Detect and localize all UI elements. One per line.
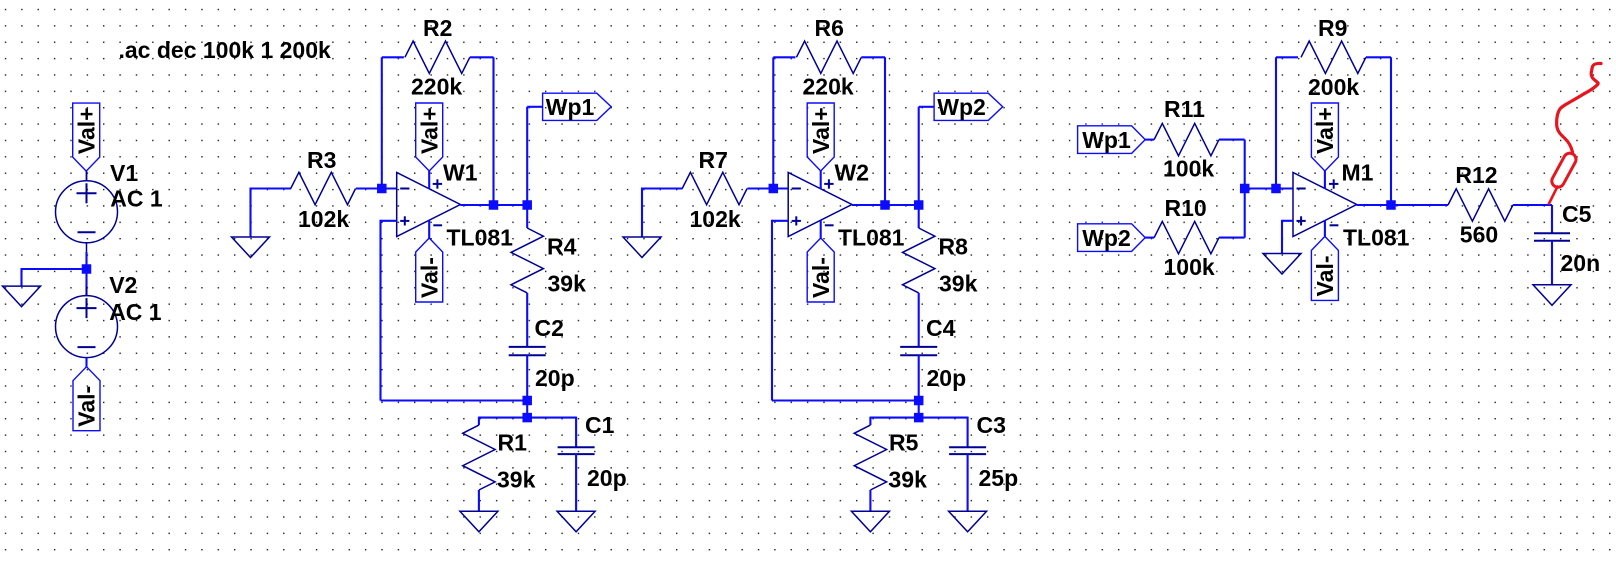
svg-text:R7: R7 (699, 147, 728, 173)
value 39k of R4 (548, 271, 587, 297)
label M1 (1342, 160, 1374, 186)
resistor R9 feedback (1301, 41, 1366, 73)
wire C3 top lead (967, 417, 969, 448)
svg-text:M1: M1 (1342, 160, 1374, 186)
svg-text:Wp2: Wp2 (1082, 225, 1131, 251)
svg-text:C2: C2 (535, 315, 564, 341)
resistor R3 (291, 172, 356, 204)
svg-text:W2: W2 (835, 159, 870, 185)
resistor R6 feedback (796, 41, 861, 73)
label TL081 of W1 (447, 225, 514, 251)
svg-text:39k: 39k (889, 467, 928, 493)
wire node vertical (918, 401, 920, 418)
svg-text:TL081: TL081 (447, 225, 514, 251)
wire output to R4 (526, 205, 528, 228)
op-amp M1 TL081 (1293, 173, 1357, 237)
wire output W2 (852, 204, 919, 206)
wire feedback right vertical R6 (884, 57, 886, 205)
wire M1 output to R12 (1357, 204, 1448, 206)
svg-text:C3: C3 (977, 412, 1006, 438)
label R9 (1318, 15, 1347, 41)
flag Val+ (V1) (73, 103, 100, 171)
wire V1 top pin (86, 171, 88, 181)
wire node vertical (526, 401, 528, 418)
wire Wp1 flag to R11 (1145, 139, 1154, 141)
flag port Wp2 (input) (1078, 224, 1146, 252)
flag port Wp1 (input) (1078, 126, 1146, 154)
value AC 1 (V1) (110, 186, 163, 212)
svg-text:W1: W1 (443, 159, 478, 185)
wire C4 to node (918, 355, 920, 400)
junction feedback-output W2 (880, 200, 890, 210)
svg-text:200k: 200k (1308, 74, 1359, 100)
value 20p of C4 (927, 365, 967, 391)
value 100k of R11 (1163, 155, 1214, 181)
wire R9 right vertical (1390, 57, 1392, 205)
label TL081 of W2 (838, 225, 905, 251)
wire R1 top lead (478, 417, 480, 426)
op-amp W1 TL081 (397, 173, 461, 237)
wire R8 to C4 (918, 293, 920, 347)
flag Val+ (W1) (416, 103, 443, 171)
svg-text:220k: 220k (411, 74, 462, 100)
flag Val+ (W2) (807, 103, 834, 171)
svg-text:R6: R6 (815, 15, 844, 41)
wire C5 to ground (1551, 241, 1553, 286)
svg-text:AC 1: AC 1 (109, 299, 162, 325)
wire noninverting input W2 (772, 220, 788, 222)
resistor R5 (854, 425, 886, 490)
junction feedback-output W1 (489, 200, 499, 210)
op-amp W2 TL081 (788, 173, 852, 237)
value 39k of R5 (889, 467, 928, 493)
svg-text:220k: 220k (803, 74, 854, 100)
flag Val- (V2) (73, 367, 100, 431)
svg-text:R12: R12 (1455, 162, 1497, 188)
label C5 (1562, 201, 1592, 227)
junction output node W1 (522, 200, 532, 210)
svg-text:Val+: Val+ (73, 107, 99, 154)
svg-text:560: 560 (1460, 222, 1498, 248)
ground under C5 (1533, 285, 1571, 306)
svg-text:R10: R10 (1165, 195, 1207, 221)
label R11 (1164, 96, 1205, 122)
wire V1-V2 (85, 252, 87, 296)
svg-text:V2: V2 (109, 272, 137, 298)
svg-text:20n: 20n (1561, 250, 1601, 276)
svg-text:Val-: Val- (1312, 255, 1338, 296)
svg-text:.ac dec 100k 1 200k: .ac dec 100k 1 200k (119, 37, 331, 63)
svg-text:Val+: Val+ (1312, 107, 1338, 154)
wire noninverting input W1 (381, 220, 397, 222)
svg-text:20p: 20p (535, 365, 575, 391)
wire C1 to ground (575, 454, 577, 512)
label R2 (423, 15, 452, 41)
svg-text:39k: 39k (497, 467, 536, 493)
svg-text:Val+: Val+ (416, 107, 442, 154)
svg-text:100k: 100k (1163, 155, 1214, 181)
resistor R12 (1448, 189, 1513, 221)
svg-text:V1: V1 (110, 160, 138, 186)
voltage source V2 circle (56, 286, 118, 367)
svg-text:TL081: TL081 (1343, 225, 1410, 251)
wire C1 top lead (575, 417, 577, 448)
wire R3 to inverting input (356, 187, 397, 189)
svg-text:R11: R11 (1164, 96, 1205, 122)
value 20p of C1 (587, 465, 627, 491)
value 102k of R7 (690, 206, 741, 232)
ground under R1 (460, 511, 498, 532)
svg-text:39k: 39k (548, 271, 587, 297)
value 102k of R3 (298, 206, 349, 232)
svg-text:AC 1: AC 1 (110, 186, 163, 212)
wire feedback right vertical R2 (492, 57, 494, 205)
svg-text:R2: R2 (423, 15, 452, 41)
svg-text:C1: C1 (585, 412, 615, 438)
resistor R2 feedback (405, 41, 470, 73)
value 20n of C5 (1561, 250, 1601, 276)
wire R3 left to ground riser (251, 187, 292, 189)
value 220k of R6 (803, 74, 854, 100)
wire M1 noninverting input (1282, 220, 1293, 222)
probe wire (red) (1557, 63, 1601, 152)
resistor R4 (511, 228, 543, 293)
ground left of sources (3, 286, 41, 307)
wire Val+ stub W2 (820, 171, 822, 189)
resistor R7 (682, 172, 747, 204)
label R3 (307, 147, 336, 173)
wire gnd branch horizontal (21, 268, 87, 270)
svg-text:39k: 39k (939, 271, 978, 297)
wire feedback top right R2 (470, 56, 494, 58)
label R4 (547, 234, 577, 260)
label C2 (535, 315, 564, 341)
svg-text:R1: R1 (498, 430, 528, 456)
flag port Wp2 (934, 93, 1003, 120)
wire feedback top left R2 (382, 56, 404, 58)
wire Wp2 flag to R10 (1145, 237, 1154, 239)
wire R5 top lead (869, 417, 871, 426)
junction R9 tap (1271, 184, 1281, 194)
wire output to R8 (918, 205, 920, 228)
junction output node W2 (914, 200, 924, 210)
wire to Wp2 flag (919, 106, 934, 108)
svg-text:R4: R4 (547, 234, 577, 260)
value 100k of R10 (1164, 254, 1215, 280)
wire feedback top right R6 (861, 56, 885, 58)
capacitor C5 (1534, 233, 1570, 241)
svg-text:R3: R3 (307, 147, 336, 173)
wire R11 to summing riser (1219, 139, 1245, 141)
value 39k of R1 (497, 467, 536, 493)
label C1 (585, 412, 615, 438)
svg-text:Val+: Val+ (808, 107, 834, 154)
svg-text:Val-: Val- (808, 257, 834, 298)
wire Val- stub W1 (428, 220, 430, 238)
flag port Wp1 (543, 93, 612, 120)
resistor R11 (1154, 123, 1219, 155)
capacitor C1 (558, 447, 595, 454)
label W2 (835, 159, 870, 185)
wire Val+ stub W1 (428, 171, 430, 189)
value 20p of C2 (535, 365, 575, 391)
resistor R8 (903, 228, 935, 293)
wire Val- stub M1 (1324, 220, 1326, 237)
flag Val- (W1) (416, 238, 443, 302)
wire R7 left to ground riser (642, 187, 683, 189)
probe body (red capsule) (1550, 151, 1579, 189)
wire summing riser (1244, 140, 1246, 238)
wire R10 to summing riser (1219, 237, 1245, 239)
wire R1 to ground (478, 490, 480, 512)
label R8 (939, 234, 969, 260)
wire to R5 (870, 417, 918, 419)
wire R4 to C2 (526, 293, 528, 347)
junction V1-V2-gnd node (82, 264, 92, 274)
label V1 (110, 160, 138, 186)
wire to Wp1 flag (527, 106, 542, 108)
value 39k of R8 (939, 271, 978, 297)
ground under C3 (949, 511, 987, 532)
resistor R10 (1154, 221, 1219, 253)
ground at M1 noninverting input (1263, 254, 1301, 275)
junction M1 output node (1386, 200, 1396, 210)
flag Val- (M1) (1311, 236, 1338, 300)
probe tip wire (red) (1549, 187, 1558, 204)
value 200k of R9 (1308, 74, 1359, 100)
wire V2 bottom to Val- (85, 357, 87, 367)
capacitor C2 (509, 347, 546, 355)
wire ground riser R7 (641, 188, 643, 238)
svg-text:C4: C4 (926, 315, 956, 341)
wire Val- stub W2 (820, 220, 822, 238)
junction summing node (1240, 184, 1250, 194)
svg-text:R9: R9 (1318, 15, 1347, 41)
junction R5-C3 node (914, 413, 924, 423)
junction inverting node W1 (377, 184, 387, 194)
ground at R3 input (232, 237, 270, 258)
label C3 (977, 412, 1006, 438)
wire summing node to M1 (1245, 187, 1293, 189)
svg-text:102k: 102k (690, 206, 741, 232)
svg-text:R5: R5 (889, 430, 919, 456)
wire to R1 (479, 417, 527, 419)
wire riser to Wp2 flag (918, 107, 920, 205)
wire C3 to ground (967, 454, 969, 512)
wire feedback left vertical R6 (772, 57, 774, 188)
junction R1-C1 node (522, 413, 532, 423)
wire R9 top right (1366, 56, 1391, 58)
capacitor C3 (949, 447, 986, 454)
wire C5 node down (1551, 205, 1553, 233)
resistor R1 (463, 425, 495, 490)
wire gnd branch vertical (20, 268, 22, 287)
label R5 (889, 430, 919, 456)
flag Val- (W2) (807, 238, 834, 302)
label R6 (815, 15, 844, 41)
value AC 1 (V2) (109, 299, 162, 325)
junction bottom rail node W2 (914, 396, 924, 406)
svg-text:C5: C5 (1562, 201, 1592, 227)
label W1 (443, 159, 478, 185)
wire M1 noninverting riser (1281, 220, 1283, 254)
wire noninverting riser W2 (771, 220, 773, 401)
ground under R5 (851, 511, 889, 532)
svg-text:Wp2: Wp2 (937, 94, 986, 120)
label R7 (699, 147, 728, 173)
wire feedback top left R6 (773, 56, 795, 58)
svg-text:Val-: Val- (74, 386, 100, 427)
capacitor C4 (900, 347, 937, 355)
spice directive .ac (119, 37, 331, 63)
wire riser to Wp1 flag (526, 107, 528, 205)
label R10 (1165, 195, 1207, 221)
wire R9 left vertical (1275, 57, 1277, 188)
label TL081 of M1 (1343, 225, 1410, 251)
label V2 (109, 272, 137, 298)
junction inverting node W2 (769, 184, 779, 194)
svg-text:Wp1: Wp1 (1082, 127, 1131, 153)
wire R9 top left (1276, 56, 1298, 58)
svg-text:Val-: Val- (416, 257, 442, 298)
wire C2 to node (526, 355, 528, 400)
label R12 (1455, 162, 1497, 188)
value 25p of C3 (979, 465, 1019, 491)
svg-text:25p: 25p (979, 465, 1019, 491)
svg-text:R8: R8 (939, 234, 969, 260)
flag Val+ (M1) (1311, 103, 1338, 171)
svg-text:TL081: TL081 (838, 225, 905, 251)
wire Val+ stub M1 (1324, 171, 1326, 189)
ground at R7 input (623, 237, 661, 258)
label R1 (498, 430, 528, 456)
wire to C1 (527, 417, 576, 419)
wire bottom rail W1 (381, 399, 528, 401)
wire output W1 (460, 204, 527, 206)
wire bottom rail W2 (772, 399, 919, 401)
wire R7 to inverting input (747, 187, 788, 189)
wire to C3 (919, 417, 968, 419)
wire noninverting riser W1 (379, 220, 381, 401)
value 220k of R2 (411, 74, 462, 100)
svg-text:Wp1: Wp1 (546, 94, 595, 120)
wire R12 to C5 node (1513, 204, 1552, 206)
value 560 of R12 (1460, 222, 1498, 248)
svg-text:100k: 100k (1164, 254, 1215, 280)
junction bottom rail node W1 (522, 396, 532, 406)
svg-text:20p: 20p (587, 465, 627, 491)
wire ground riser R3 (249, 188, 251, 238)
ground under C1 (557, 511, 595, 532)
label C4 (926, 315, 956, 341)
svg-text:20p: 20p (927, 365, 967, 391)
voltage source V1 circle (56, 171, 118, 252)
wire feedback left vertical R2 (381, 57, 383, 188)
wire R5 to ground (869, 490, 871, 512)
svg-text:102k: 102k (298, 206, 349, 232)
